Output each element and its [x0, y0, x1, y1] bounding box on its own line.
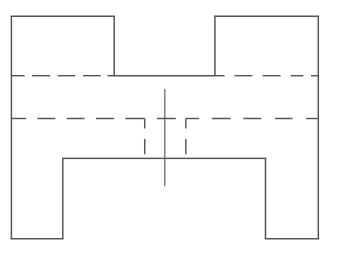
hidden line: lower shoulder left of slot (y=118.5): [11, 118, 144, 120]
visible edge: top of left flange: [11, 15, 114, 17]
visible edge: left side of right flange: [214, 16, 216, 75]
visible edge: left outer side: [10, 16, 12, 239]
visible edge: top of right flange: [215, 15, 318, 17]
visible edge: top of middle web (between flanges): [114, 75, 215, 77]
visible edge: bottom of left leg: [11, 238, 62, 240]
hidden line: right side of slot (x=185.8): [185, 119, 187, 155]
visible edge: inner left side of right leg: [265, 158, 267, 238]
hidden line: upper shoulder behind left flange (y=75.7): [11, 75, 114, 77]
centerline of slot (x=164.8): [164, 89, 166, 186]
visible edge: bottom of right leg: [266, 238, 319, 240]
hidden line: upper shoulder behind right flange (y=75.7): [215, 75, 318, 77]
visible edge: bottom step of middle section: [63, 157, 266, 159]
hidden line: lower shoulder across slot centre (y=118.5): [157, 118, 176, 120]
hidden line: left side of slot (x=144.7): [144, 119, 146, 155]
visible edge: inner right side of left leg: [62, 158, 64, 238]
visible edge: right side of left flange: [113, 16, 115, 75]
hidden line: lower shoulder right of slot (y=118.5): [186, 118, 318, 120]
visible edge: right outer side: [317, 16, 319, 239]
